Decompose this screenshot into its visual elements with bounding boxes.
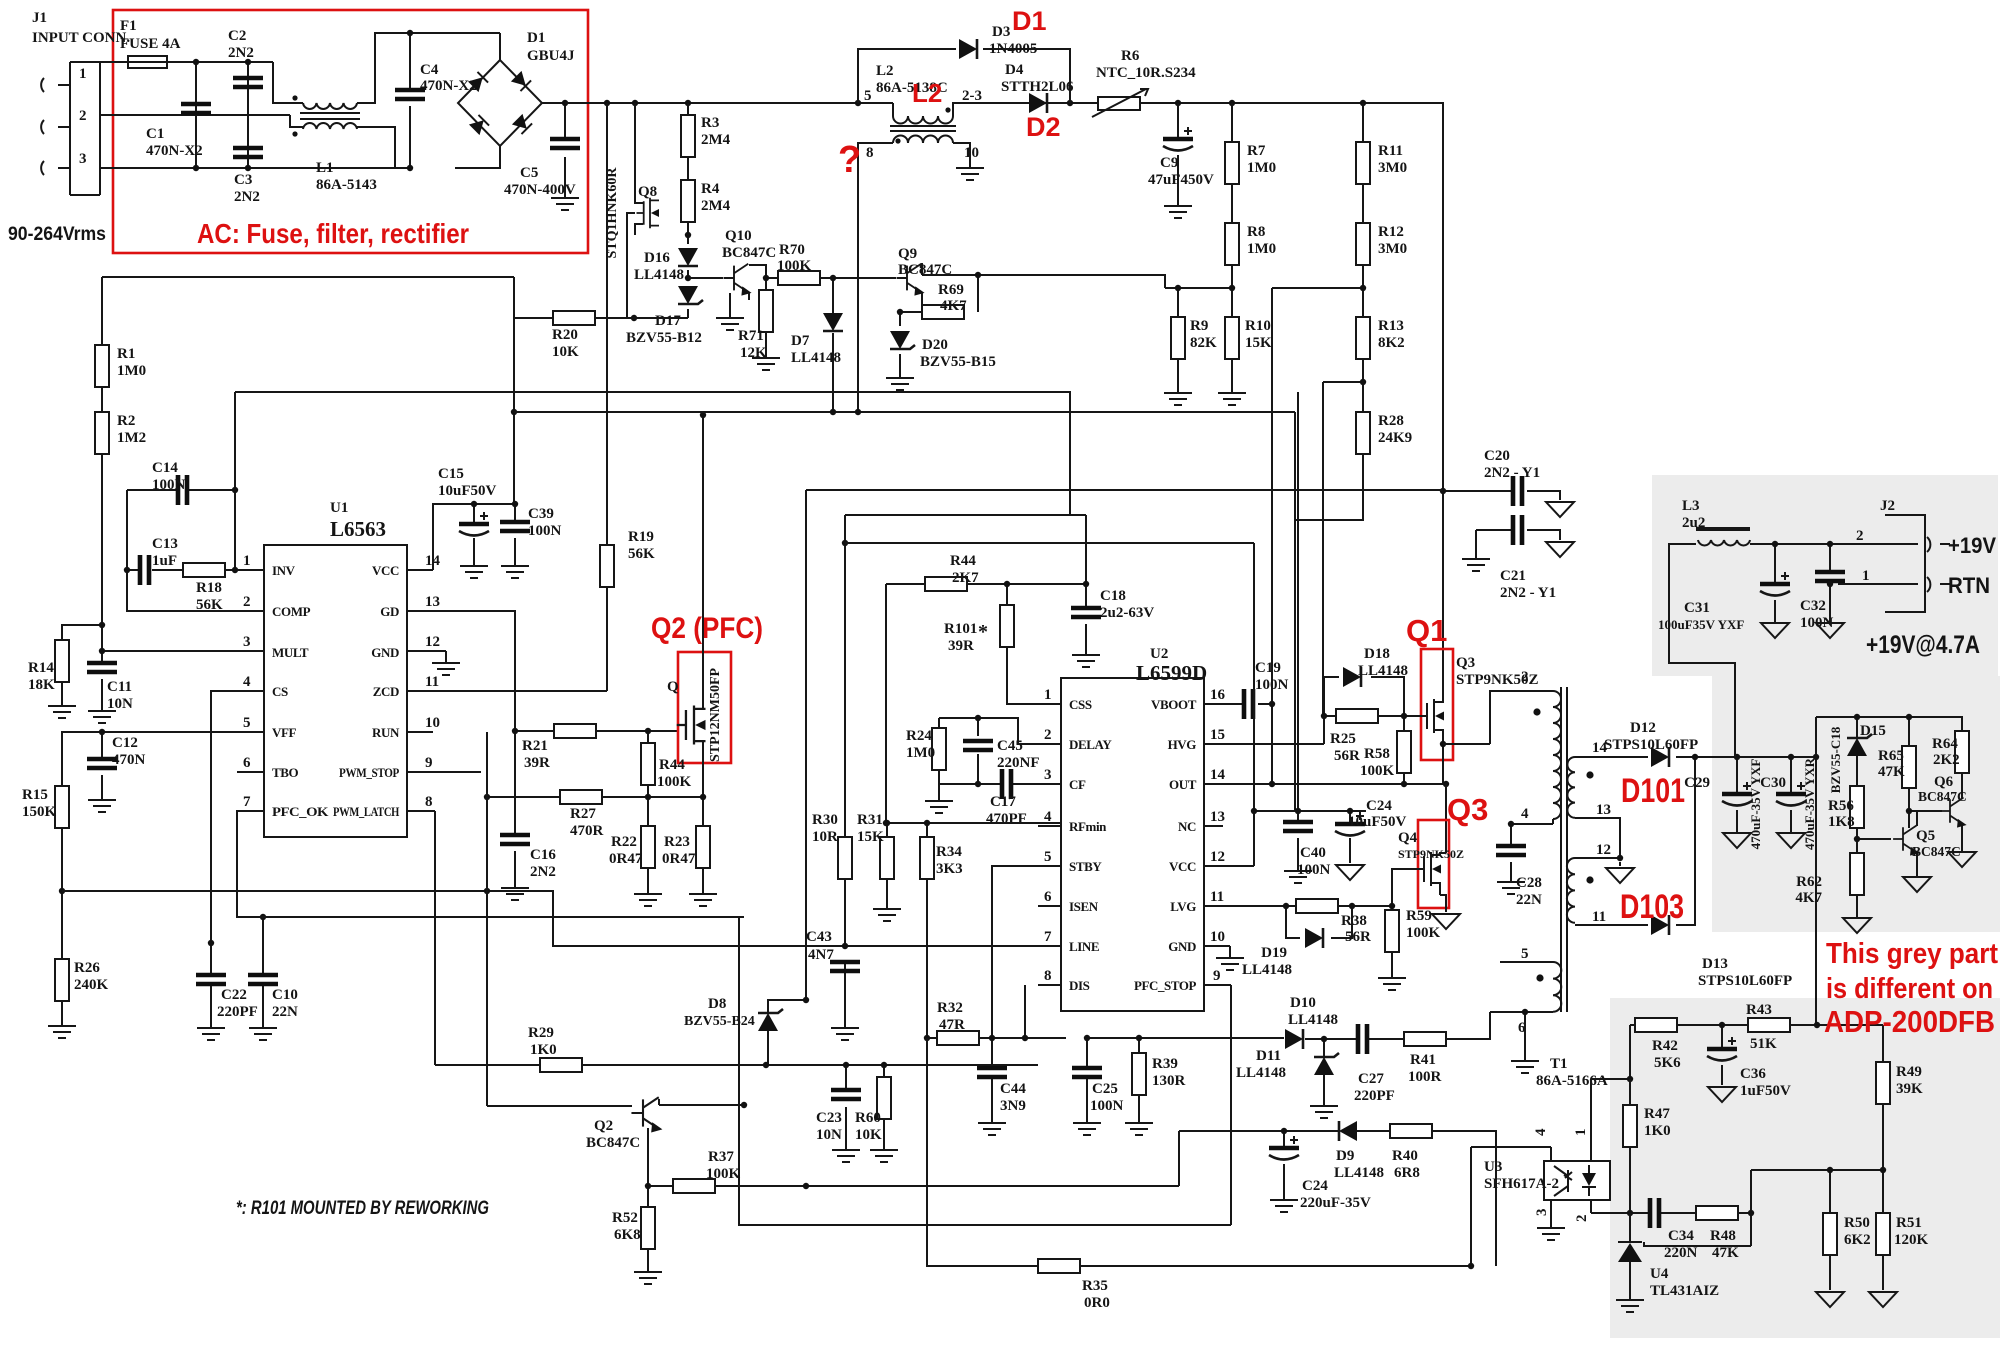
svg-text:5: 5 xyxy=(1521,946,1529,962)
svg-text:Q6: Q6 xyxy=(1934,774,1954,790)
svg-text:C11: C11 xyxy=(107,679,132,695)
svg-text:R42: R42 xyxy=(1652,1038,1678,1054)
svg-text:L2: L2 xyxy=(912,78,942,108)
svg-text:STTH2L06: STTH2L06 xyxy=(1001,79,1074,95)
svg-text:L1: L1 xyxy=(316,160,334,176)
svg-text:6: 6 xyxy=(1044,889,1052,905)
svg-text:D15: D15 xyxy=(1860,723,1886,739)
svg-text:10uF50V: 10uF50V xyxy=(1348,814,1407,830)
svg-text:2: 2 xyxy=(1856,528,1864,544)
svg-text:BZV55-B15: BZV55-B15 xyxy=(920,354,996,370)
svg-text:LL4148: LL4148 xyxy=(634,267,684,283)
svg-text:8: 8 xyxy=(425,794,433,810)
svg-text:47R: 47R xyxy=(939,1017,965,1033)
svg-text:C36: C36 xyxy=(1740,1066,1766,1082)
svg-text:INV: INV xyxy=(272,563,296,578)
svg-text:10N: 10N xyxy=(107,696,133,712)
svg-text:D4: D4 xyxy=(1005,62,1024,78)
svg-text:R43: R43 xyxy=(1746,1002,1772,1018)
svg-text:13: 13 xyxy=(425,594,440,610)
svg-text:SFH617A-2: SFH617A-2 xyxy=(1484,1176,1559,1192)
svg-text:LL4148: LL4148 xyxy=(1358,663,1408,679)
svg-text:BC847C: BC847C xyxy=(586,1135,640,1151)
svg-text:470N-400V: 470N-400V xyxy=(504,182,576,198)
svg-text:7: 7 xyxy=(1044,929,1052,945)
svg-text:1N4005: 1N4005 xyxy=(989,41,1037,57)
svg-text:10: 10 xyxy=(964,145,979,161)
svg-text:130R: 130R xyxy=(1152,1073,1186,1089)
svg-text:C5: C5 xyxy=(520,165,538,181)
svg-text:56R: 56R xyxy=(1345,929,1371,945)
svg-text:13: 13 xyxy=(1596,802,1611,818)
svg-text:R35: R35 xyxy=(1082,1278,1108,1294)
svg-text:D7: D7 xyxy=(791,333,810,349)
svg-text:6K8: 6K8 xyxy=(614,1227,641,1243)
svg-text:9: 9 xyxy=(425,755,433,771)
svg-text:2N2 - Y1: 2N2 - Y1 xyxy=(1484,465,1540,481)
svg-text:39K: 39K xyxy=(1896,1081,1923,1097)
svg-text:220N: 220N xyxy=(1664,1245,1698,1261)
svg-text:5K6: 5K6 xyxy=(1654,1055,1681,1071)
svg-text:100K: 100K xyxy=(1406,925,1441,941)
svg-text:100K: 100K xyxy=(777,258,812,274)
svg-text:D101: D101 xyxy=(1621,772,1685,810)
svg-text:R13: R13 xyxy=(1378,318,1404,334)
svg-text:82K: 82K xyxy=(1190,335,1217,351)
svg-text:3K3: 3K3 xyxy=(936,861,963,877)
svg-text:100N: 100N xyxy=(528,523,562,539)
svg-text:R51: R51 xyxy=(1896,1215,1922,1231)
svg-text:*: * xyxy=(978,621,988,643)
svg-text:BC847C: BC847C xyxy=(1912,844,1961,859)
svg-text:BC847C: BC847C xyxy=(1918,789,1967,804)
svg-text:C14: C14 xyxy=(152,460,178,476)
svg-text:STBY: STBY xyxy=(1069,859,1102,874)
svg-text:D1: D1 xyxy=(1012,6,1047,36)
svg-text:3: 3 xyxy=(1044,767,1052,783)
svg-text:8: 8 xyxy=(1044,968,1052,984)
svg-text:TBO: TBO xyxy=(272,765,299,780)
svg-text:C24: C24 xyxy=(1366,798,1392,814)
svg-text:100K: 100K xyxy=(657,774,692,790)
svg-text:R21: R21 xyxy=(522,738,548,754)
svg-text:R11: R11 xyxy=(1378,143,1403,159)
svg-text:VCC: VCC xyxy=(372,563,399,578)
svg-text:Q3: Q3 xyxy=(1447,792,1488,827)
svg-text:NC: NC xyxy=(1178,819,1196,834)
svg-text:D12: D12 xyxy=(1630,720,1656,736)
svg-text:12: 12 xyxy=(1596,842,1611,858)
svg-text:?: ? xyxy=(838,139,861,181)
svg-text:R29: R29 xyxy=(528,1025,554,1041)
svg-text:Q10: Q10 xyxy=(725,228,752,244)
svg-text:INPUT CONN.: INPUT CONN. xyxy=(32,30,130,46)
svg-text:MULT: MULT xyxy=(272,645,309,660)
svg-text:47uF450V: 47uF450V xyxy=(1148,172,1214,188)
svg-text:C3: C3 xyxy=(234,172,252,188)
svg-text:C34: C34 xyxy=(1668,1228,1694,1244)
svg-text:1: 1 xyxy=(1044,687,1052,703)
svg-text:CSS: CSS xyxy=(1069,697,1092,712)
svg-text:R18: R18 xyxy=(196,580,222,596)
svg-text:R19: R19 xyxy=(628,529,654,545)
svg-text:Q: Q xyxy=(667,679,679,695)
svg-text:4K7: 4K7 xyxy=(940,298,967,314)
svg-text:R50: R50 xyxy=(1844,1215,1870,1231)
svg-text:GBU4J: GBU4J xyxy=(527,48,575,64)
svg-text:2: 2 xyxy=(1521,669,1529,685)
svg-text:470uF-35V YXF: 470uF-35V YXF xyxy=(1748,759,1763,850)
svg-text:220PF: 220PF xyxy=(217,1004,258,1020)
svg-text:3: 3 xyxy=(79,151,87,167)
svg-text:R34: R34 xyxy=(936,844,962,860)
svg-text:150K: 150K xyxy=(22,804,57,820)
svg-text:C45: C45 xyxy=(997,738,1023,754)
svg-text:RUN: RUN xyxy=(372,725,400,740)
svg-text:Q4: Q4 xyxy=(1398,830,1418,846)
svg-text:C15: C15 xyxy=(438,466,464,482)
svg-text:470PF: 470PF xyxy=(986,811,1027,827)
svg-text:R69: R69 xyxy=(938,282,964,298)
svg-text:D17: D17 xyxy=(655,313,681,329)
svg-text:R38: R38 xyxy=(1341,913,1367,929)
svg-text:470R: 470R xyxy=(570,823,604,839)
svg-text:220NF: 220NF xyxy=(997,755,1040,771)
svg-text:OUT: OUT xyxy=(1169,777,1197,792)
svg-text:T1: T1 xyxy=(1550,1056,1568,1072)
svg-text:2u2: 2u2 xyxy=(1682,515,1705,531)
svg-text:R101: R101 xyxy=(944,621,977,637)
svg-text:C12: C12 xyxy=(112,735,138,751)
svg-text:ADP-200DFB: ADP-200DFB xyxy=(1824,1004,1995,1039)
svg-text:Q2: Q2 xyxy=(594,1118,613,1134)
svg-text:220PF: 220PF xyxy=(1354,1088,1395,1104)
svg-text:3N9: 3N9 xyxy=(1000,1098,1026,1114)
svg-text:R30: R30 xyxy=(812,812,838,828)
svg-text:4: 4 xyxy=(243,674,251,690)
svg-text:C27: C27 xyxy=(1358,1071,1384,1087)
svg-text:10uF50V: 10uF50V xyxy=(438,483,497,499)
svg-text:100uF35V YXF: 100uF35V YXF xyxy=(1658,617,1744,632)
svg-text:R1: R1 xyxy=(117,346,135,362)
svg-text:C18: C18 xyxy=(1100,588,1126,604)
svg-text:6: 6 xyxy=(1518,1020,1526,1036)
svg-text:CF: CF xyxy=(1069,777,1086,792)
svg-text:R47: R47 xyxy=(1644,1106,1670,1122)
svg-text:C23: C23 xyxy=(816,1110,842,1126)
svg-text:STPS10L60FP: STPS10L60FP xyxy=(1604,737,1698,753)
svg-text:PWM_STOP: PWM_STOP xyxy=(339,765,399,780)
svg-text:10: 10 xyxy=(1210,929,1225,945)
svg-text:LL4148: LL4148 xyxy=(1334,1165,1384,1181)
svg-text:C10: C10 xyxy=(272,987,298,1003)
svg-text:C29: C29 xyxy=(1684,775,1710,791)
svg-text:LL4148: LL4148 xyxy=(1288,1012,1338,1028)
svg-text:ISEN: ISEN xyxy=(1069,899,1099,914)
svg-text:R14: R14 xyxy=(28,660,54,676)
svg-text:L6563: L6563 xyxy=(330,517,386,541)
svg-text:C24: C24 xyxy=(1302,1178,1328,1194)
svg-text:2: 2 xyxy=(79,108,87,124)
svg-text:CS: CS xyxy=(272,684,288,699)
svg-text:R7: R7 xyxy=(1247,143,1266,159)
svg-text:F1: F1 xyxy=(120,18,137,34)
svg-text:PFC_OK: PFC_OK xyxy=(272,804,329,819)
svg-text:470N: 470N xyxy=(112,752,146,768)
svg-text:12: 12 xyxy=(1210,849,1225,865)
svg-text:NTC_10R.S234: NTC_10R.S234 xyxy=(1096,65,1196,81)
svg-text:+19V: +19V xyxy=(1948,533,1996,558)
svg-text:Q1: Q1 xyxy=(1406,613,1447,648)
svg-text:C9: C9 xyxy=(1160,155,1178,171)
svg-text:BC847C: BC847C xyxy=(898,262,952,278)
svg-text:100N: 100N xyxy=(1255,677,1289,693)
svg-text:C21: C21 xyxy=(1500,568,1526,584)
svg-text:8: 8 xyxy=(866,145,874,161)
svg-text:1K0: 1K0 xyxy=(1644,1123,1671,1139)
svg-text:RTN: RTN xyxy=(1948,573,1990,598)
svg-text:2M4: 2M4 xyxy=(701,198,731,214)
svg-text:D10: D10 xyxy=(1290,995,1316,1011)
svg-text:3: 3 xyxy=(243,634,251,650)
svg-text:R64: R64 xyxy=(1932,736,1958,752)
svg-text:5: 5 xyxy=(1044,849,1052,865)
svg-text:L6599D: L6599D xyxy=(1136,661,1207,685)
svg-text:LINE: LINE xyxy=(1069,939,1099,954)
svg-text:1K0: 1K0 xyxy=(530,1042,557,1058)
svg-text:3: 3 xyxy=(1534,1209,1550,1217)
svg-text:5: 5 xyxy=(243,715,251,731)
svg-text:R6: R6 xyxy=(1121,48,1140,64)
svg-text:2u2-63V: 2u2-63V xyxy=(1100,605,1154,621)
svg-text:D3: D3 xyxy=(992,24,1010,40)
svg-text:DELAY: DELAY xyxy=(1069,737,1112,752)
svg-text:2N2: 2N2 xyxy=(530,864,556,880)
svg-text:15: 15 xyxy=(1210,727,1225,743)
svg-text:56K: 56K xyxy=(196,597,223,613)
svg-text:Q2 (PFC): Q2 (PFC) xyxy=(651,612,763,645)
svg-text:4: 4 xyxy=(1521,806,1529,822)
svg-text:C25: C25 xyxy=(1092,1081,1118,1097)
svg-text:12K: 12K xyxy=(740,345,767,361)
svg-text:56R: 56R xyxy=(1334,748,1360,764)
svg-text:2: 2 xyxy=(243,594,251,610)
svg-text:R9: R9 xyxy=(1190,318,1208,334)
svg-text:D8: D8 xyxy=(708,996,726,1012)
svg-text:100R: 100R xyxy=(1408,1069,1442,1085)
svg-text:22N: 22N xyxy=(1516,892,1542,908)
svg-text:L3: L3 xyxy=(1682,498,1700,514)
svg-text:R31: R31 xyxy=(857,812,883,828)
svg-text:R41: R41 xyxy=(1410,1052,1436,1068)
svg-text:BZV55-C18: BZV55-C18 xyxy=(1828,726,1843,793)
svg-text:1uF: 1uF xyxy=(152,553,177,569)
svg-text:R52: R52 xyxy=(612,1210,638,1226)
svg-text:R12: R12 xyxy=(1378,224,1404,240)
svg-text:BZV55-B12: BZV55-B12 xyxy=(626,330,702,346)
svg-text:D13: D13 xyxy=(1702,956,1728,972)
svg-text:56K: 56K xyxy=(628,546,655,562)
svg-text:R15: R15 xyxy=(22,787,48,803)
svg-text:C43: C43 xyxy=(806,929,832,945)
svg-text:18K: 18K xyxy=(28,677,55,693)
svg-text:16: 16 xyxy=(1210,687,1226,703)
svg-text:L2: L2 xyxy=(876,63,894,79)
svg-text:47K: 47K xyxy=(1878,764,1905,780)
svg-text:D9: D9 xyxy=(1336,1148,1354,1164)
svg-text:Q9: Q9 xyxy=(898,246,917,262)
svg-text:This grey part: This grey part xyxy=(1826,938,1998,970)
svg-text:HVG: HVG xyxy=(1168,737,1197,752)
svg-text:Q3: Q3 xyxy=(1456,655,1475,671)
svg-text:470N-X2: 470N-X2 xyxy=(146,143,203,159)
svg-text:100K: 100K xyxy=(1360,763,1395,779)
svg-text:R24: R24 xyxy=(906,728,932,744)
svg-text:100N: 100N xyxy=(1090,1098,1124,1114)
svg-text:R4: R4 xyxy=(701,181,720,197)
svg-text:R27: R27 xyxy=(570,806,596,822)
svg-text:14: 14 xyxy=(1210,767,1226,783)
svg-text:220uF-35V: 220uF-35V xyxy=(1300,1195,1371,1211)
svg-text:10R: 10R xyxy=(812,829,838,845)
svg-text:BZV55-B24: BZV55-B24 xyxy=(684,1014,755,1029)
svg-text:C4: C4 xyxy=(420,62,439,78)
svg-text:D20: D20 xyxy=(922,337,948,353)
svg-text:4K7: 4K7 xyxy=(1795,890,1822,906)
svg-text:R22: R22 xyxy=(611,834,637,850)
svg-text:U4: U4 xyxy=(1650,1266,1669,1282)
svg-text:1M0: 1M0 xyxy=(906,745,935,761)
svg-text:R65: R65 xyxy=(1878,748,1904,764)
svg-text:1: 1 xyxy=(243,553,251,569)
svg-text:100N: 100N xyxy=(1297,862,1331,878)
svg-text:2N2: 2N2 xyxy=(228,45,254,61)
svg-text:10K: 10K xyxy=(552,344,579,360)
svg-text:1M0: 1M0 xyxy=(1247,160,1276,176)
svg-text:0R0: 0R0 xyxy=(1084,1295,1110,1311)
svg-text:1uF50V: 1uF50V xyxy=(1740,1083,1791,1099)
svg-text:10N: 10N xyxy=(816,1127,842,1143)
svg-text:90-264Vrms: 90-264Vrms xyxy=(8,224,106,245)
svg-text:TL431AIZ: TL431AIZ xyxy=(1650,1283,1719,1299)
svg-text:15K: 15K xyxy=(857,829,884,845)
svg-text:C44: C44 xyxy=(1000,1081,1026,1097)
svg-text:GND: GND xyxy=(371,645,399,660)
svg-text:R56: R56 xyxy=(1828,798,1854,814)
svg-text:C2: C2 xyxy=(228,28,246,44)
svg-text:39R: 39R xyxy=(948,638,974,654)
svg-text:4N7: 4N7 xyxy=(808,947,834,963)
svg-text:ZCD: ZCD xyxy=(373,684,399,699)
svg-text:C28: C28 xyxy=(1516,875,1542,891)
svg-text:J2: J2 xyxy=(1880,498,1895,514)
svg-text:2K7: 2K7 xyxy=(952,570,979,586)
svg-text:C13: C13 xyxy=(152,536,178,552)
svg-text:1M2: 1M2 xyxy=(117,430,146,446)
svg-text:R25: R25 xyxy=(1330,731,1356,747)
svg-text:U1: U1 xyxy=(330,500,348,516)
svg-text:86A-5166A: 86A-5166A xyxy=(1536,1073,1608,1089)
svg-text:7: 7 xyxy=(243,794,251,810)
svg-text:R70: R70 xyxy=(779,242,805,258)
svg-text:51K: 51K xyxy=(1750,1036,1777,1052)
svg-text:120K: 120K xyxy=(1894,1232,1929,1248)
svg-text:AC: Fuse, filter, rectifier: AC: Fuse, filter, rectifier xyxy=(197,218,469,249)
svg-text:2: 2 xyxy=(1044,727,1052,743)
svg-text:15K: 15K xyxy=(1245,335,1272,351)
svg-text:Q8: Q8 xyxy=(638,184,657,200)
svg-text:22N: 22N xyxy=(272,1004,298,1020)
svg-text:C16: C16 xyxy=(530,847,556,863)
svg-text:D11: D11 xyxy=(1256,1048,1281,1064)
svg-text:100K: 100K xyxy=(706,1166,741,1182)
svg-text:C30: C30 xyxy=(1760,775,1786,791)
svg-text:PFC_STOP: PFC_STOP xyxy=(1134,978,1196,993)
svg-text:47K: 47K xyxy=(1712,1245,1739,1261)
svg-text:100N: 100N xyxy=(152,477,186,493)
svg-text:STP9NK50Z: STP9NK50Z xyxy=(1398,847,1464,861)
svg-text:R58: R58 xyxy=(1364,746,1390,762)
svg-text:R44: R44 xyxy=(659,757,685,773)
svg-text:1: 1 xyxy=(1573,1129,1589,1137)
svg-text:*: R101 MOUNTED BY REWORKING: *: R101 MOUNTED BY REWORKING xyxy=(236,1198,489,1219)
svg-text:6: 6 xyxy=(243,755,251,771)
svg-text:13: 13 xyxy=(1210,809,1225,825)
svg-text:11: 11 xyxy=(1210,889,1224,905)
svg-text:R37: R37 xyxy=(708,1149,734,1165)
svg-text:1M0: 1M0 xyxy=(117,363,146,379)
svg-text:R20: R20 xyxy=(552,327,578,343)
svg-text:R2: R2 xyxy=(117,413,135,429)
svg-text:D1: D1 xyxy=(527,30,545,46)
svg-text:10K: 10K xyxy=(855,1127,882,1143)
svg-text:STPS10L60FP: STPS10L60FP xyxy=(1698,973,1792,989)
svg-text:2K2: 2K2 xyxy=(1933,752,1960,768)
svg-text:1: 1 xyxy=(1862,568,1870,584)
svg-text:U3: U3 xyxy=(1484,1159,1502,1175)
svg-text:is different on: is different on xyxy=(1826,973,1993,1005)
svg-text:R23: R23 xyxy=(664,834,690,850)
svg-text:STP12NM50FP: STP12NM50FP xyxy=(708,668,723,763)
svg-text:DIS: DIS xyxy=(1069,978,1090,993)
svg-text:2-3: 2-3 xyxy=(962,88,982,104)
svg-text:2N2: 2N2 xyxy=(234,189,260,205)
svg-text:11: 11 xyxy=(1592,909,1606,925)
svg-text:86A-5143: 86A-5143 xyxy=(316,177,377,193)
svg-text:5: 5 xyxy=(864,88,872,104)
svg-text:11: 11 xyxy=(425,674,439,690)
svg-text:2N2 - Y1: 2N2 - Y1 xyxy=(1500,585,1556,601)
svg-text:R10: R10 xyxy=(1245,318,1271,334)
svg-text:24K9: 24K9 xyxy=(1378,430,1412,446)
svg-text:LVG: LVG xyxy=(1170,899,1196,914)
svg-text:+19V@4.7A: +19V@4.7A xyxy=(1866,631,1980,659)
svg-text:C22: C22 xyxy=(221,987,247,1003)
svg-text:LL4148: LL4148 xyxy=(791,350,841,366)
svg-text:R3: R3 xyxy=(701,115,719,131)
svg-text:470uF-35V YXR: 470uF-35V YXR xyxy=(1802,757,1817,850)
svg-text:R39: R39 xyxy=(1152,1056,1178,1072)
svg-text:1M0: 1M0 xyxy=(1247,241,1276,257)
svg-text:GD: GD xyxy=(380,604,399,619)
svg-text:RFmin: RFmin xyxy=(1069,819,1107,834)
svg-text:D16: D16 xyxy=(644,250,670,266)
svg-text:C19: C19 xyxy=(1255,660,1281,676)
svg-text:100N: 100N xyxy=(1800,615,1834,631)
svg-text:6K2: 6K2 xyxy=(1844,1232,1871,1248)
svg-text:R49: R49 xyxy=(1896,1064,1922,1080)
svg-text:R8: R8 xyxy=(1247,224,1265,240)
